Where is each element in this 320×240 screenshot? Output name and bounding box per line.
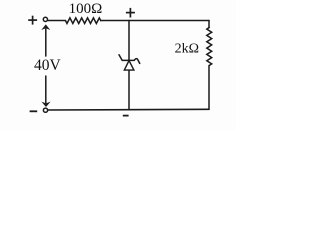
svg-text:40V: 40V (34, 57, 62, 74)
svg-text:100Ω: 100Ω (69, 1, 103, 17)
svg-text:2kΩ: 2kΩ (175, 41, 199, 56)
